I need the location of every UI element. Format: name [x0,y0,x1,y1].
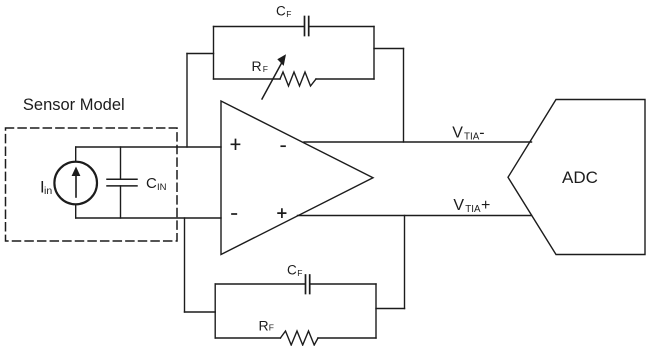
svg-text:C: C [287,263,297,278]
svg-text:V: V [452,125,463,142]
svg-text:-: - [479,125,484,142]
svg-text:ADC: ADC [562,168,598,187]
svg-text:R: R [252,58,262,74]
svg-text:Sensor Model: Sensor Model [23,96,125,114]
svg-text:R: R [259,317,269,333]
svg-text:C: C [276,4,286,19]
svg-text:C: C [146,175,157,192]
svg-text:in: in [44,185,52,197]
svg-text:V: V [453,197,464,214]
svg-text:F: F [297,268,302,278]
svg-text:TIA: TIA [465,204,481,215]
svg-text:TIA: TIA [464,132,480,143]
svg-text:IN: IN [157,182,167,193]
svg-text:F: F [269,322,274,332]
svg-text:F: F [286,9,291,19]
svg-text:+: + [481,197,490,214]
svg-text:F: F [263,64,268,74]
